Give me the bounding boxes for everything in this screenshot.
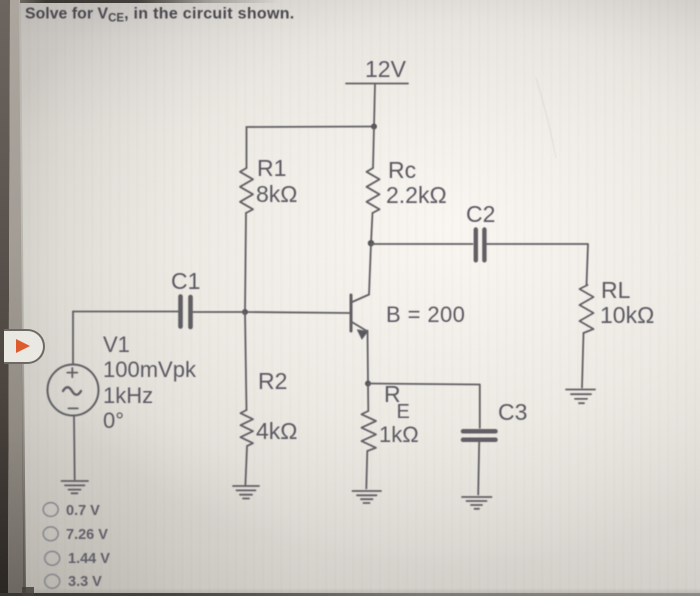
answer options	[43, 503, 110, 590]
radio option 0.7 V	[43, 503, 58, 517]
ground under V1	[62, 481, 89, 493]
wire base from node to transistor	[245, 312, 350, 313]
wire C1 to base node	[193, 311, 245, 313]
screen bezel left dark edge	[0, 0, 12, 596]
wire R2 bottom	[245, 447, 247, 485]
12V supply bar	[346, 83, 408, 85]
radio option 3.3 V	[45, 574, 60, 588]
node emitter	[365, 381, 371, 387]
ground under R2	[233, 486, 259, 499]
wire V1 top stem	[72, 312, 74, 365]
wire collector node to C2	[371, 243, 473, 245]
play button tab	[4, 329, 45, 364]
wire 12V stem	[374, 84, 375, 127]
radio option 1.44 V	[45, 551, 60, 565]
resistor R2	[241, 410, 254, 446]
wire R1 top	[246, 127, 248, 168]
wire Rc top	[373, 127, 374, 169]
wire RE bottom	[366, 451, 367, 489]
wire RE top	[367, 384, 369, 412]
wire V1 bottom	[73, 416, 76, 480]
radio option 7.26 V	[43, 527, 58, 541]
node base	[242, 309, 248, 315]
ground under RE	[353, 491, 382, 503]
wire Rc bottom to collector node	[371, 213, 373, 243]
faint photo scratch	[536, 78, 556, 158]
question title	[25, 6, 295, 25]
resistor R1	[240, 168, 253, 213]
wire emitter node to C3	[368, 384, 480, 428]
resistor RE	[362, 411, 377, 451]
wire R2 top from base node	[245, 312, 247, 410]
node junction top rail	[371, 124, 377, 130]
capacitor C2	[476, 230, 485, 261]
capacitor C3	[463, 431, 496, 440]
wire R1 bottom to base node	[245, 213, 246, 312]
wire V1 to C1	[73, 311, 178, 313]
play triangle	[16, 339, 30, 353]
wire collector vertical	[369, 243, 371, 294]
ground under RL	[566, 390, 595, 404]
resistor Rc	[367, 168, 380, 213]
wire top rail	[247, 126, 375, 129]
wire emitter vertical	[367, 331, 370, 384]
node collector	[368, 240, 374, 246]
capacitor C1	[181, 297, 191, 328]
wire C3 bottom	[478, 442, 479, 495]
ground under C3	[462, 497, 492, 509]
wire RL bottom	[582, 333, 584, 388]
source V1	[48, 365, 99, 416]
resistor RL	[580, 285, 594, 333]
transistor Q1	[351, 295, 369, 339]
wire C2 to RL	[487, 244, 588, 285]
bottom edge shading	[19, 588, 700, 596]
dark sliver top edge	[20, 0, 280, 3]
